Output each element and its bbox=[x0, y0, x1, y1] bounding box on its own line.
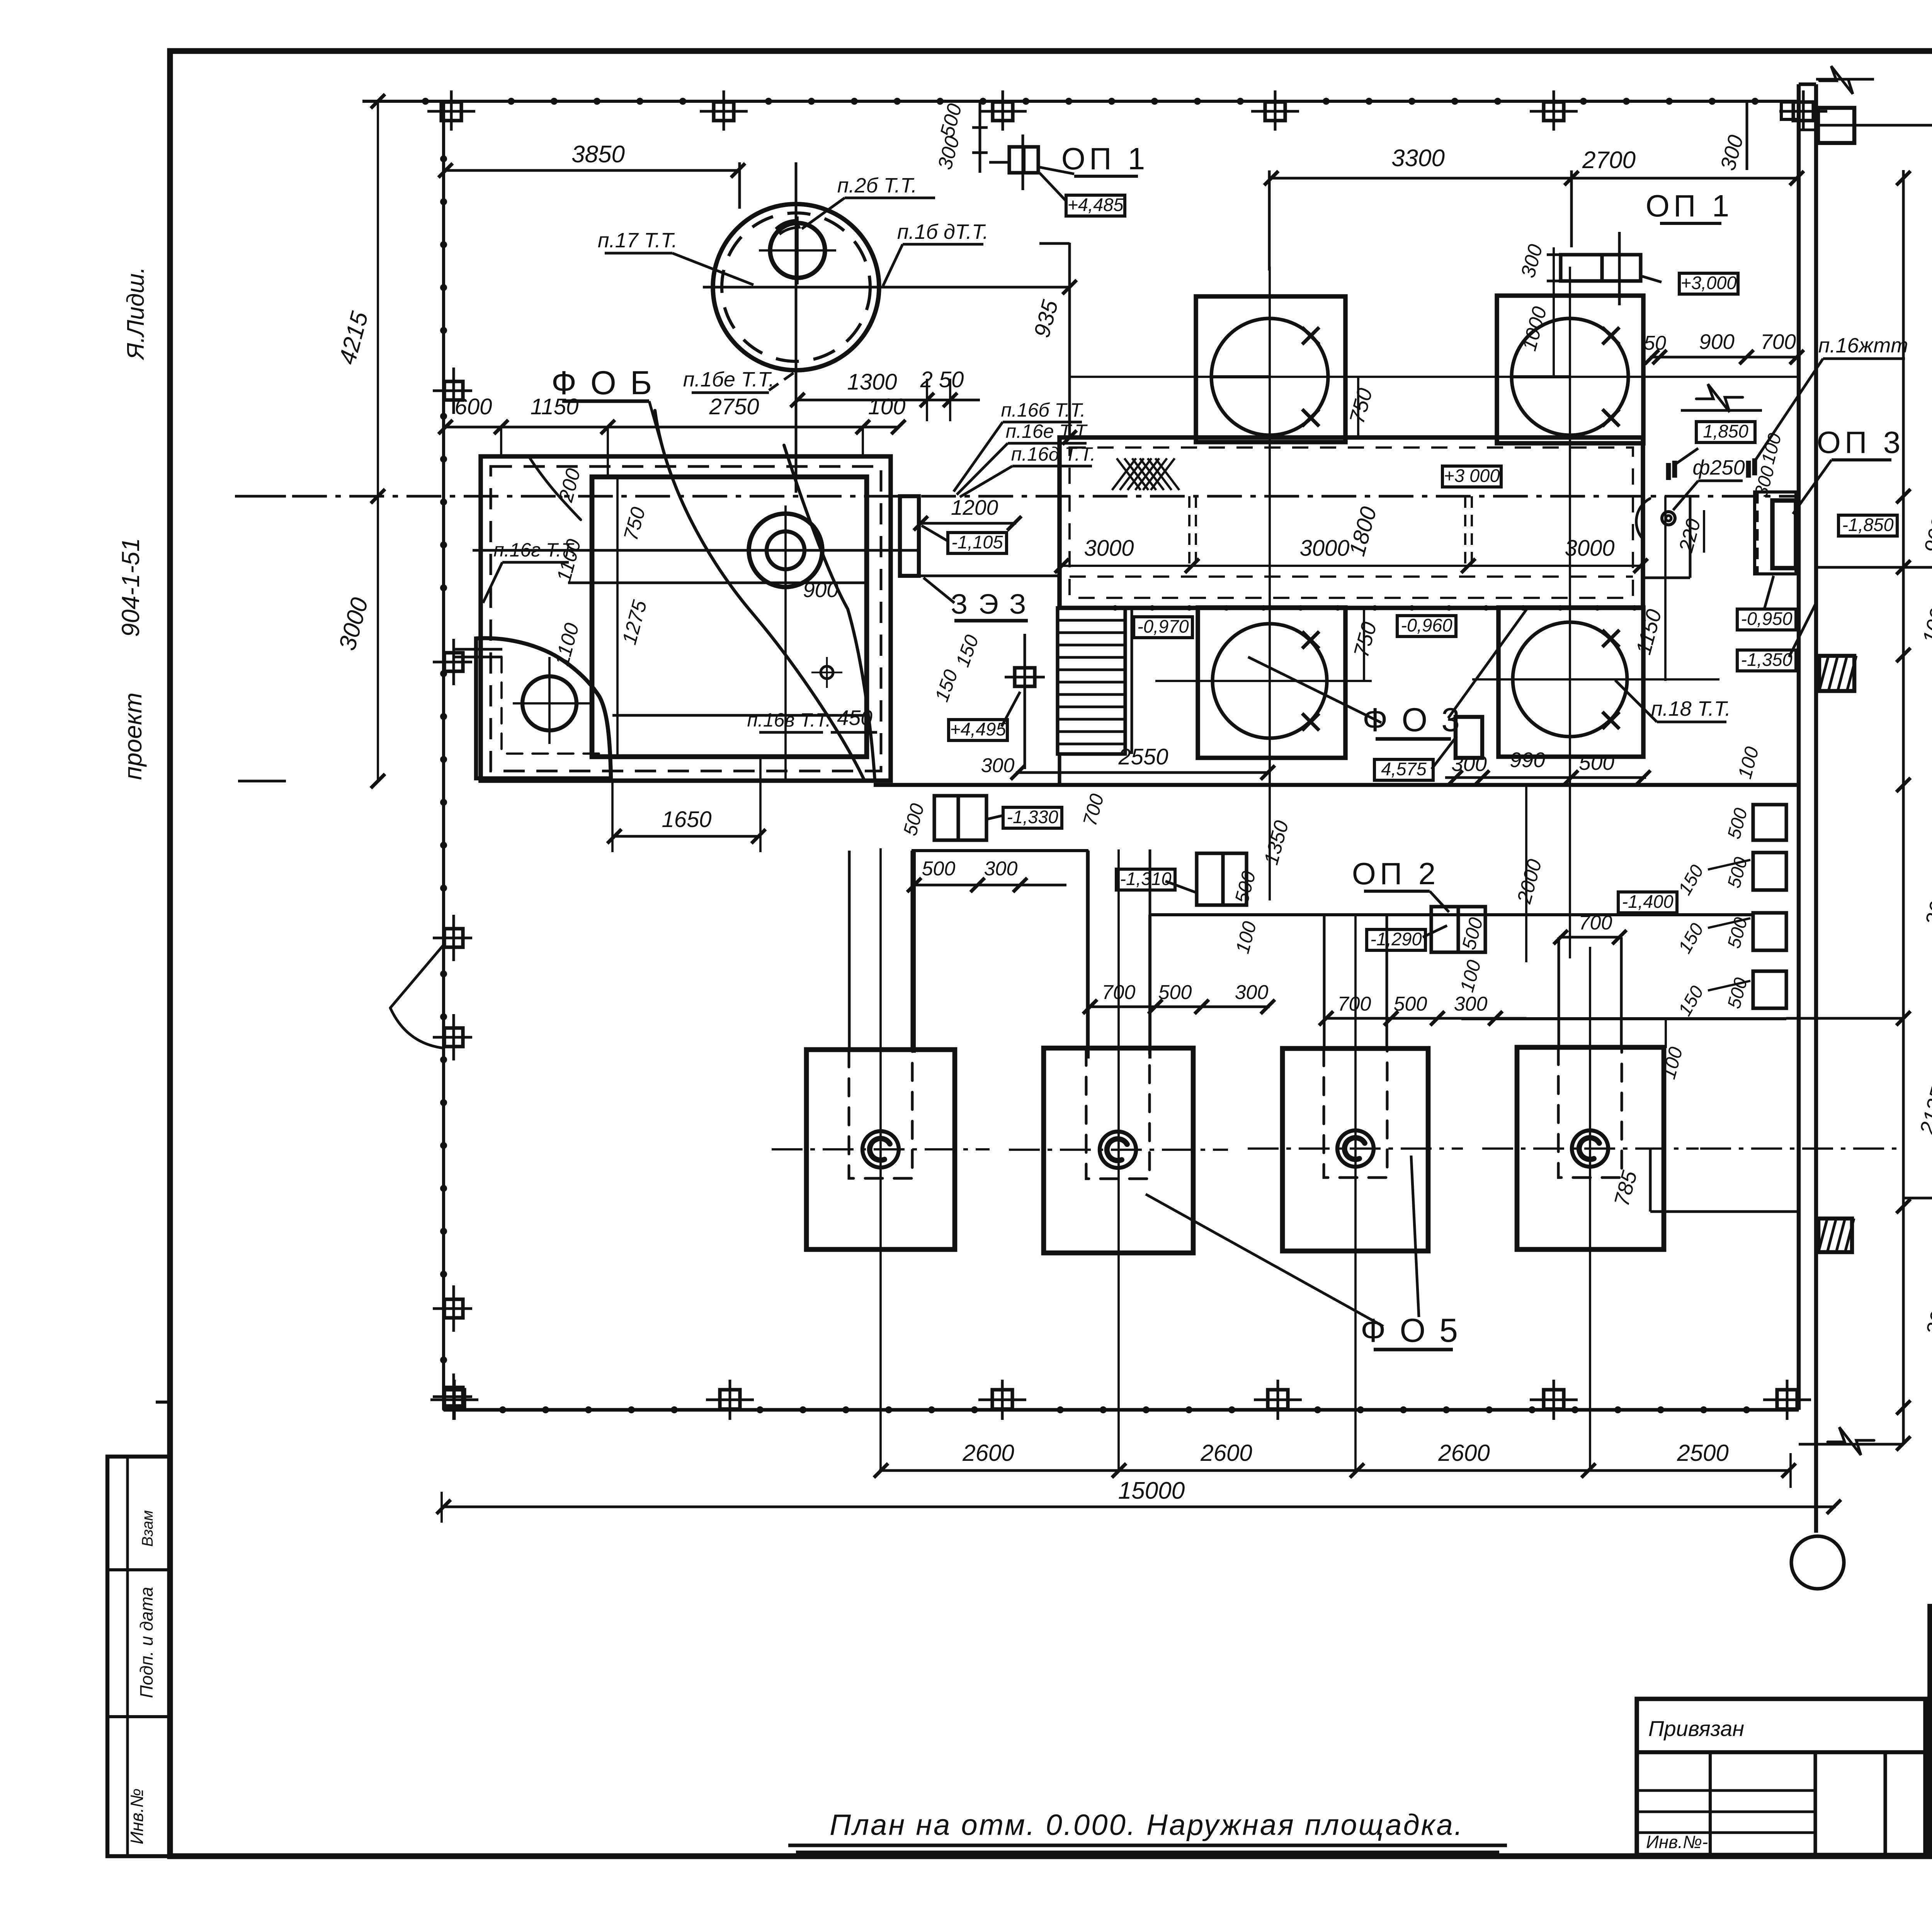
plan top boundary dotted line bbox=[362, 100, 1799, 103]
connector rectangle between FOB and platform bbox=[900, 496, 919, 576]
survey marker OP2 rect bbox=[1431, 907, 1485, 952]
small square left of wall top bbox=[1781, 102, 1799, 119]
pad vertical centerline B bbox=[1569, 267, 1571, 958]
svg-text:-1,310: -1,310 bbox=[1120, 868, 1171, 889]
compressor pad square B upper bbox=[1497, 296, 1643, 443]
thick tie marks bbox=[1666, 463, 1671, 480]
FO5 square 4 dashed anchor box bbox=[1558, 1047, 1622, 1178]
platform dashed verticals A bbox=[1188, 496, 1190, 566]
FO5 square 1 centerlines bbox=[772, 1148, 990, 1151]
pad C circle bbox=[1213, 624, 1327, 738]
marker rect pair -1,330 bbox=[934, 796, 986, 840]
svg-text:2600: 2600 bbox=[962, 1440, 1014, 1466]
svg-text:3000: 3000 bbox=[1565, 536, 1614, 561]
FOB small circle marker bbox=[821, 666, 833, 679]
svg-text:904-1-51: 904-1-51 bbox=[117, 538, 145, 637]
FOB freehand curve A bbox=[655, 410, 864, 779]
platform lower dashed line bbox=[1070, 575, 1633, 578]
svg-text:-1,290: -1,290 bbox=[1370, 929, 1422, 949]
platform FO3 outer rectangle bbox=[1060, 437, 1643, 608]
svg-text:2600: 2600 bbox=[1438, 1440, 1490, 1466]
FOB freehand curve B bbox=[784, 445, 875, 780]
FOB inner thick rectangle bbox=[592, 477, 867, 757]
svg-text:ОП 1: ОП 1 bbox=[1061, 141, 1149, 176]
wall double vertical lines bbox=[1797, 84, 1801, 1410]
pad B circle bbox=[1512, 318, 1628, 435]
privyazan table bbox=[1637, 1699, 1925, 1855]
svg-text:300: 300 bbox=[981, 754, 1015, 777]
svg-text:1300: 1300 bbox=[847, 369, 897, 395]
svg-text:450: 450 bbox=[837, 706, 872, 730]
svg-text:2750: 2750 bbox=[709, 394, 759, 419]
compressor pad square D lower bbox=[1498, 608, 1643, 757]
FOB inner horizontal lines bbox=[473, 549, 919, 552]
tank centerlines bbox=[795, 162, 798, 493]
svg-text:500: 500 bbox=[1158, 981, 1192, 1004]
elevation -0,950 bbox=[1737, 609, 1796, 630]
svg-text:План на отм. 0.000. Наружн: План на отм. 0.000. Наружная площадка. bbox=[830, 1809, 1464, 1841]
compressor pad square C lower bbox=[1198, 608, 1345, 758]
svg-text:300: 300 bbox=[1451, 752, 1487, 776]
elevation -1,400 bbox=[1618, 892, 1677, 913]
svg-text:+4,495: +4,495 bbox=[950, 719, 1006, 739]
FOB bottom dimension 1650 bbox=[612, 835, 760, 838]
svg-text:ОП 1: ОП 1 bbox=[1646, 189, 1733, 223]
svg-text:п.1бе Т.Т.: п.1бе Т.Т. bbox=[683, 368, 775, 391]
foundation FO5 square 2 bbox=[1044, 1048, 1193, 1253]
dimension 2550 bbox=[1016, 771, 1270, 774]
dimension 15000 bbox=[442, 1506, 1836, 1508]
platform dimension 3000 x3 bbox=[1060, 565, 1643, 567]
svg-text:500: 500 bbox=[1579, 751, 1614, 774]
svg-text:1200: 1200 bbox=[951, 495, 998, 519]
elevation +4,495 bbox=[949, 720, 1007, 740]
boxed elevation 1,850 bbox=[1696, 422, 1755, 443]
svg-text:900: 900 bbox=[1699, 330, 1735, 354]
wall bottom break bbox=[1799, 1443, 1903, 1446]
survey marker OP1-2 rectangles bbox=[1561, 255, 1641, 281]
foundation FO5 square 3 bbox=[1282, 1048, 1428, 1251]
top boundary column markers bbox=[441, 102, 461, 121]
left margin strip table bbox=[107, 1457, 170, 1856]
svg-text:700: 700 bbox=[1760, 330, 1796, 354]
svg-text:3000: 3000 bbox=[1299, 536, 1349, 561]
svg-text:2550: 2550 bbox=[1118, 744, 1168, 769]
main axis dash-dot centerline bbox=[235, 495, 1799, 498]
platform dashed verticals B bbox=[1464, 496, 1466, 566]
svg-text:-0,970: -0,970 bbox=[1137, 616, 1189, 637]
foundation FO5 square 4 bbox=[1517, 1047, 1664, 1249]
small circle f250 bbox=[1662, 512, 1675, 525]
lower pads centerlines bbox=[1155, 680, 1372, 682]
platform bottom dotted edge bbox=[1060, 606, 1643, 609]
svg-text:З Э З: З Э З bbox=[951, 589, 1028, 620]
right column small rectangles on wall bbox=[1753, 805, 1786, 840]
pad D circle bbox=[1513, 622, 1627, 737]
dimension 1200 bbox=[919, 522, 1016, 525]
FOB dashed inset rectangle bbox=[491, 466, 881, 771]
FO3 leaders bbox=[1248, 657, 1381, 723]
FOB pit circle bbox=[522, 676, 577, 730]
svg-text:-1,850: -1,850 bbox=[1842, 514, 1893, 535]
compressor pad square A upper bbox=[1196, 296, 1345, 442]
gate swing arc at left boundary bbox=[390, 945, 444, 1008]
svg-text:100: 100 bbox=[868, 394, 906, 419]
svg-text:п.18 Т.Т.: п.18 Т.Т. bbox=[1651, 697, 1731, 720]
elevation +3,000 bbox=[1679, 273, 1738, 294]
svg-text:Привязан: Привязан bbox=[1648, 1716, 1744, 1741]
platform dashed inset bbox=[1070, 448, 1633, 598]
survey point OP1 number 1 marker bbox=[1009, 147, 1038, 173]
svg-text:-1,105: -1,105 bbox=[951, 532, 1003, 552]
svg-text:990: 990 bbox=[1510, 748, 1545, 772]
svg-text:Инв.№-: Инв.№- bbox=[1646, 1832, 1708, 1852]
plan left boundary dotted line bbox=[442, 101, 445, 1410]
title block signature rows bbox=[1930, 1708, 1932, 1711]
FO5 square 4 centerline extension to dimension line bbox=[1700, 1147, 1903, 1150]
svg-text:600: 600 bbox=[455, 394, 492, 419]
svg-text:-1,400: -1,400 bbox=[1622, 891, 1673, 912]
FO5 square 4 anchor circle bbox=[1572, 1130, 1608, 1167]
pads horizontal centerline bbox=[1070, 376, 1801, 378]
tank foundation outer circle bbox=[713, 204, 879, 370]
svg-text:+3,000: +3,000 bbox=[1680, 272, 1736, 293]
step lines mid bbox=[1149, 913, 1753, 916]
tank notch at inner circle top bbox=[777, 220, 799, 233]
title block upper small rows bbox=[1930, 1626, 1932, 1629]
svg-text:4,575: 4,575 bbox=[1381, 759, 1427, 779]
FO5 square 4 centerlines bbox=[1482, 1147, 1699, 1150]
svg-text:500: 500 bbox=[1394, 993, 1427, 1015]
FO5 square 3 vertical centerline bbox=[1354, 915, 1357, 1470]
FOB top dimension chain 600 1150 2750 100 bbox=[446, 426, 898, 429]
axis circle bottom bbox=[1791, 1536, 1844, 1589]
dimension 700 500 300 right set bbox=[1324, 1017, 1526, 1020]
left boundary column markers bbox=[444, 381, 463, 400]
svg-text:700: 700 bbox=[1338, 993, 1371, 1015]
region lines near f250 bbox=[1689, 496, 1692, 578]
svg-text:+4,485: +4,485 bbox=[1067, 194, 1124, 215]
elevation 4,575 boxed bbox=[1374, 759, 1433, 780]
svg-text:15000: 15000 bbox=[1118, 1477, 1185, 1504]
FO5 square 3 anchor circle bbox=[1337, 1130, 1374, 1167]
lower area boundary line bbox=[874, 783, 1799, 787]
dimension 700 at pad4 bbox=[1559, 936, 1621, 939]
svg-text:ф250: ф250 bbox=[1692, 456, 1745, 479]
svg-text:ОП 2: ОП 2 bbox=[1352, 856, 1439, 891]
svg-text:п.16жтт: п.16жтт bbox=[1818, 334, 1908, 357]
leader to +3,000 bbox=[1642, 276, 1662, 282]
svg-text:3300: 3300 bbox=[1391, 145, 1445, 172]
FO5 square 2 vertical centerline bbox=[1117, 849, 1120, 1470]
tank dashed circle bbox=[722, 213, 870, 361]
svg-text:700: 700 bbox=[1579, 912, 1612, 934]
svg-text:п.1б дТ.Т.: п.1б дТ.Т. bbox=[897, 220, 988, 243]
elevation -1,105 bbox=[948, 533, 1007, 553]
svg-text:п.2б Т.Т.: п.2б Т.Т. bbox=[837, 174, 917, 197]
elevation +3 000 on platform bbox=[1442, 466, 1501, 487]
svg-text:Я.Лидш.: Я.Лидш. bbox=[122, 267, 149, 360]
FOB inner vertical line bbox=[616, 477, 619, 757]
svg-text:-0,960: -0,960 bbox=[1401, 615, 1452, 635]
small square at FO3 bbox=[1456, 717, 1482, 758]
dimension row 2600 2600 2600 2500 bbox=[879, 1469, 1791, 1472]
elevation -1,350 bbox=[1737, 650, 1796, 671]
svg-text:п.16б Т.Т.: п.16б Т.Т. bbox=[1001, 399, 1085, 421]
FO5 square 2 centerlines bbox=[1009, 1149, 1228, 1151]
platform left lower edge bbox=[1058, 754, 1061, 785]
svg-text:Подп. и дата: Подп. и дата bbox=[136, 1587, 156, 1698]
svg-text:-1,330: -1,330 bbox=[1007, 807, 1058, 827]
svg-text:2500: 2500 bbox=[1677, 1440, 1728, 1466]
right dimension vertical line bbox=[1902, 170, 1905, 1444]
dimension 935 vertical bbox=[1068, 243, 1071, 437]
small square marker with cross near +4,495 bbox=[1015, 668, 1035, 686]
FOB freehand curve C top bbox=[530, 458, 581, 520]
FO5 square 1 vertical centerline bbox=[879, 848, 882, 1470]
foundation FO5 square 1 bbox=[806, 1050, 955, 1249]
dimension 3850 bbox=[444, 169, 740, 172]
wall top small rectangle bbox=[1818, 108, 1854, 143]
svg-text:Инв.№: Инв.№ bbox=[127, 1789, 147, 1845]
FO5 square 4 vertical centerline bbox=[1589, 947, 1591, 1470]
FO5 square 3 centerlines bbox=[1248, 1147, 1463, 1150]
dimension 1300 and 250 bbox=[796, 399, 980, 402]
FO5 square 1 dashed anchor box bbox=[849, 1050, 912, 1178]
FO5 square 3 dashed anchor box bbox=[1324, 1048, 1387, 1178]
svg-text:-1,350: -1,350 bbox=[1741, 649, 1792, 670]
survey marker OP3 rectangle bbox=[1755, 492, 1796, 574]
svg-text:+3 000: +3 000 bbox=[1444, 465, 1500, 486]
svg-text:500: 500 bbox=[922, 858, 956, 880]
dimension 50 900 700 bbox=[1650, 356, 1799, 359]
elevation -0,960 bbox=[1397, 616, 1456, 637]
title block outer bbox=[1930, 1607, 1932, 1856]
svg-text:1650: 1650 bbox=[662, 807, 711, 832]
FO5 square 1 anchor circle bbox=[862, 1131, 899, 1168]
svg-text:300: 300 bbox=[984, 858, 1018, 880]
leader OP1-1 bbox=[1038, 167, 1074, 174]
svg-text:1,850: 1,850 bbox=[1703, 421, 1748, 441]
svg-text:1150: 1150 bbox=[531, 394, 579, 419]
wall hatched block mid bbox=[1819, 656, 1854, 691]
elevation -1,850 bbox=[1838, 515, 1897, 536]
FO5 square 2 anchor circle bbox=[1100, 1132, 1136, 1168]
svg-text:Ф О 5: Ф О 5 bbox=[1361, 1312, 1460, 1349]
svg-text:п.16в Т.Т.: п.16в Т.Т. bbox=[747, 709, 831, 731]
svg-text:ОП 3: ОП 3 bbox=[1817, 425, 1904, 460]
wall hatched block lower bbox=[1818, 1219, 1852, 1252]
svg-text:900: 900 bbox=[803, 578, 838, 602]
FO5 anchor verticals above squares bbox=[848, 851, 851, 1050]
svg-text:2700: 2700 bbox=[1582, 147, 1636, 174]
dimension 700 500 300 left set bbox=[1088, 1006, 1270, 1008]
FOB pit dashed inner offset bbox=[502, 657, 604, 754]
plan bottom boundary dotted line bbox=[444, 1408, 1799, 1411]
marker rect pair -1,310 bbox=[1197, 853, 1247, 905]
svg-text:300: 300 bbox=[1454, 993, 1488, 1015]
elevation -1,310 bbox=[1116, 869, 1175, 890]
step boundary lines left bbox=[912, 849, 1088, 852]
FO5 leaders bbox=[1146, 1194, 1383, 1326]
pad vertical centerline A bbox=[1269, 267, 1271, 900]
bottom boundary column markers bbox=[444, 1390, 464, 1409]
svg-text:2600: 2600 bbox=[1200, 1440, 1252, 1466]
staircase bbox=[1058, 608, 1125, 754]
dimension 3300 and 2700 top bbox=[1269, 177, 1799, 180]
svg-text:проект: проект bbox=[119, 693, 147, 780]
crosshatch mark bbox=[1112, 458, 1136, 490]
svg-text:3000: 3000 bbox=[1084, 536, 1134, 561]
elevation -1,290 bbox=[1367, 929, 1425, 950]
svg-text:300: 300 bbox=[1235, 981, 1269, 1004]
foundation FOB outer rectangle bbox=[481, 456, 891, 781]
elevation -1,330 bbox=[1003, 807, 1062, 828]
pad A circle bbox=[1211, 318, 1328, 435]
tank inner circle p.2b bbox=[770, 223, 825, 278]
dimension 3000 vertical left bbox=[377, 496, 379, 781]
svg-text:3850: 3850 bbox=[571, 141, 625, 168]
svg-text:50: 50 bbox=[1644, 332, 1666, 354]
dimension 4215 vertical line bbox=[377, 101, 379, 496]
elevation -0,970 bbox=[1134, 617, 1192, 638]
dimension 300 990 500 bbox=[1445, 776, 1646, 779]
step lines right bbox=[1461, 1017, 1786, 1020]
FO5 square 2 dashed anchor box bbox=[1086, 1048, 1150, 1179]
dimension 2700 extension ticks bbox=[1799, 129, 1818, 131]
wall break symbol top bbox=[1820, 66, 1866, 94]
FOB lower-left pit polygon bbox=[476, 638, 611, 778]
svg-text:Взам: Взам bbox=[139, 1510, 156, 1547]
elevation +4,485 bbox=[1066, 195, 1125, 216]
svg-text:п.17 Т.Т.: п.17 Т.Т. bbox=[598, 229, 677, 252]
FOB circle with two rings bbox=[749, 514, 822, 587]
svg-text:-0,950: -0,950 bbox=[1741, 608, 1792, 629]
